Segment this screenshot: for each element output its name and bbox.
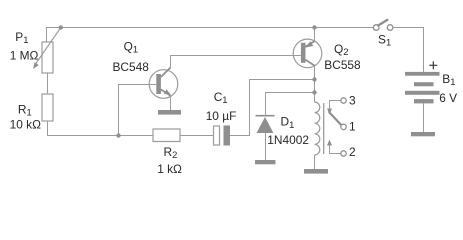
svg-text:10 µF: 10 µF — [206, 109, 237, 123]
svg-text:6 V: 6 V — [439, 91, 457, 105]
svg-text:2: 2 — [349, 145, 356, 159]
svg-text:1 MΩ: 1 MΩ — [10, 49, 39, 63]
svg-text:10 kΩ: 10 kΩ — [10, 118, 41, 132]
svg-text:BC558: BC558 — [324, 58, 361, 72]
svg-text:1: 1 — [349, 120, 356, 134]
svg-text:1N4002: 1N4002 — [267, 133, 309, 147]
svg-text:1 kΩ: 1 kΩ — [157, 162, 182, 176]
svg-text:BC548: BC548 — [113, 60, 150, 74]
svg-text:3: 3 — [349, 94, 356, 108]
